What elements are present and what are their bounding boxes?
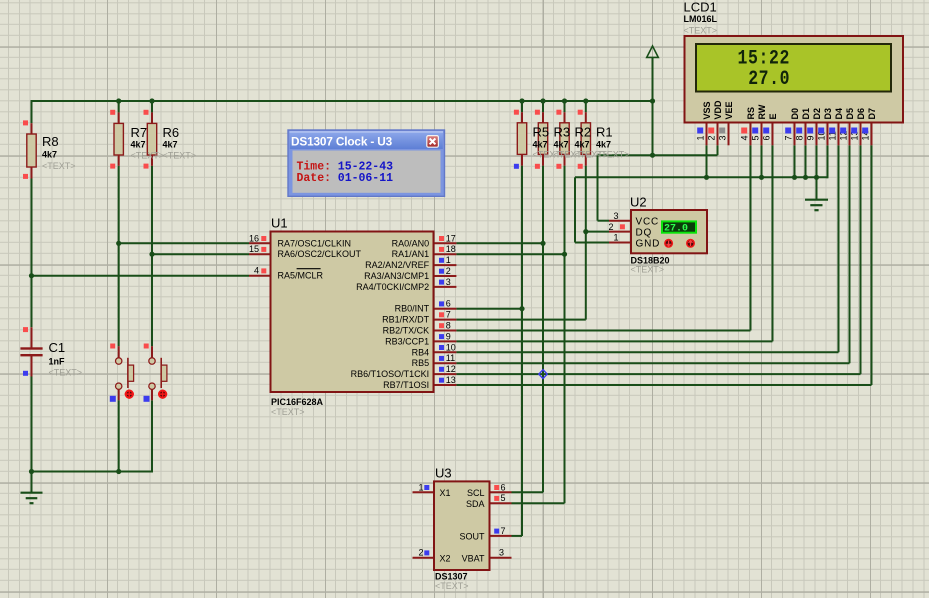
resistor R1 <box>581 123 590 155</box>
U1 right pin stubs <box>434 243 457 385</box>
svg-text:RA4/T0CKI/CMP2: RA4/T0CKI/CMP2 <box>356 282 429 292</box>
svg-text:U2: U2 <box>630 194 647 209</box>
svg-text:RB7/T1OSI: RB7/T1OSI <box>383 380 429 390</box>
svg-text:1: 1 <box>613 233 618 243</box>
svg-text:RA6/OSC2/CLKOUT: RA6/OSC2/CLKOUT <box>278 249 362 259</box>
R1 pin squares <box>578 110 583 169</box>
svg-text:R1: R1 <box>596 125 613 140</box>
svg-text:R5: R5 <box>533 125 550 140</box>
R8 pin stubs <box>31 123 33 178</box>
SW1 pin stubs <box>118 346 120 400</box>
svg-text:LCD1: LCD1 <box>684 0 717 15</box>
R1 pin stubs <box>585 112 587 165</box>
LCD pin squares <box>697 128 868 134</box>
svg-text:4: 4 <box>740 135 750 140</box>
wire LCD D2 down <box>816 145 818 177</box>
svg-text:D4: D4 <box>834 108 844 120</box>
node DQ/R1 junction <box>583 229 588 234</box>
node R6/OSC2 junction <box>149 252 154 257</box>
wire R8/MCLR vertical net <box>31 100 33 472</box>
svg-text:RB4: RB4 <box>412 347 430 357</box>
svg-text:RB0/INT: RB0/INT <box>395 304 430 314</box>
svg-text:U1: U1 <box>271 216 288 231</box>
svg-text:<TEXT>: <TEXT> <box>271 407 305 417</box>
C1 pin squares <box>23 327 28 376</box>
U2 pin numbers <box>608 211 618 243</box>
svg-text:4k7: 4k7 <box>533 140 548 150</box>
R3 pin squares <box>535 110 540 169</box>
wire LCD D7 to RB7 <box>456 145 871 385</box>
SW1 pin squares <box>110 344 116 402</box>
IC U1 PIC16F628A body <box>271 232 434 393</box>
svg-text:VEE: VEE <box>724 101 734 119</box>
R5 labels <box>533 125 567 160</box>
wire R7 / SW1 vertical <box>118 100 120 472</box>
svg-text:1: 1 <box>446 255 451 265</box>
svg-text:<TEXT>: <TEXT> <box>435 581 469 591</box>
SW2 pin stubs <box>151 346 153 400</box>
svg-text:VSS: VSS <box>702 101 712 119</box>
svg-text:VCC: VCC <box>636 217 660 228</box>
svg-text:RA2/AN2/VREF: RA2/AN2/VREF <box>365 260 430 270</box>
svg-text:SOUT: SOUT <box>459 532 485 542</box>
svg-text:4k7: 4k7 <box>131 140 146 150</box>
wire LCD D5 to RB5 <box>456 145 849 363</box>
svg-text:D2: D2 <box>812 108 822 120</box>
svg-text:4k7: 4k7 <box>554 140 569 150</box>
wire RB1 row to DQ net <box>456 319 585 321</box>
R6 pin squares <box>144 110 149 169</box>
svg-text:4k7: 4k7 <box>42 150 57 160</box>
U1 left pin stubs <box>249 243 271 275</box>
wire RA0 row to SCL net <box>456 242 543 244</box>
R1 labels <box>596 125 630 160</box>
svg-text:<TEXT>: <TEXT> <box>131 150 165 160</box>
resistor R6 <box>147 123 156 155</box>
svg-text:RA3/AN3/CMP1: RA3/AN3/CMP1 <box>364 271 429 281</box>
svg-text:C1: C1 <box>49 340 66 355</box>
U1 left pin numbers <box>249 233 259 275</box>
R2 pin stubs <box>564 112 566 165</box>
wire LCD RS to RB2 <box>456 145 750 330</box>
wire R6 / SW2 vertical <box>151 100 153 472</box>
svg-text:D5: D5 <box>845 108 855 120</box>
svg-text:D7: D7 <box>867 108 877 120</box>
U2 up button <box>686 239 695 248</box>
svg-text:X2: X2 <box>440 553 451 563</box>
U1 left pin names <box>278 238 362 280</box>
wire MCLR to U1 pin4 <box>32 275 250 277</box>
svg-text:4k7: 4k7 <box>163 140 178 150</box>
svg-text:R2: R2 <box>575 125 592 140</box>
R3 labels <box>554 125 588 160</box>
R7 pin squares <box>110 110 115 169</box>
U3 pin names <box>440 488 485 563</box>
node R7/OSC1 junction <box>116 241 121 246</box>
LCD screen line 2 text <box>748 68 790 91</box>
svg-text:9: 9 <box>806 135 816 140</box>
push button SW1 <box>116 358 134 399</box>
svg-text:RS: RS <box>746 107 756 120</box>
svg-text:18: 18 <box>446 244 456 254</box>
R8 pin squares <box>23 120 28 178</box>
svg-text:6: 6 <box>762 135 772 140</box>
U1 right pin squares <box>439 236 444 383</box>
svg-text:2: 2 <box>608 222 613 232</box>
svg-text:17: 17 <box>446 233 456 243</box>
U1 left pin squares <box>261 236 266 273</box>
node origin marker (blue diamond) <box>539 370 547 379</box>
svg-text:2: 2 <box>446 266 451 276</box>
svg-text:7: 7 <box>784 135 794 140</box>
svg-text:RB3/CCP1: RB3/CCP1 <box>385 336 429 346</box>
svg-text:27.0: 27.0 <box>664 224 688 235</box>
svg-text:9: 9 <box>446 331 451 341</box>
svg-text:R6: R6 <box>163 125 180 140</box>
ground (bottom left) <box>21 472 43 504</box>
svg-text:6: 6 <box>446 299 451 309</box>
wire R3/SCL vertical net <box>512 100 544 492</box>
wire R5/SOUT vertical net <box>512 100 523 536</box>
C1 labels <box>49 340 83 378</box>
node MCLR junction <box>29 273 34 278</box>
U3 pin stubs <box>413 492 512 557</box>
resistor R7 <box>114 123 123 155</box>
svg-text:RB6/T1OSO/T1CKI: RB6/T1OSO/T1CKI <box>351 369 430 379</box>
R2 pin squares <box>556 110 561 169</box>
resistor R8 <box>27 134 36 167</box>
wire RA1 row to SDA net <box>456 253 564 255</box>
svg-text:<TEXT>: <TEXT> <box>596 150 630 160</box>
R3 pin stubs <box>542 112 544 165</box>
svg-text:RB5: RB5 <box>412 358 430 368</box>
LCD pin names (rotated) <box>702 100 877 120</box>
svg-text:VBAT: VBAT <box>462 553 485 563</box>
svg-text:3: 3 <box>613 211 618 221</box>
junction dots on bottom rail <box>29 469 121 474</box>
wire OSC2 row to U1 pin15 <box>152 253 249 255</box>
svg-text:<TEXT>: <TEXT> <box>684 25 718 35</box>
resistor R2 <box>560 123 569 155</box>
svg-text:DS1307: DS1307 <box>435 572 468 582</box>
wire power feed vertical <box>652 58 654 156</box>
svg-text:GND: GND <box>636 238 661 249</box>
svg-text:27.0: 27.0 <box>748 68 790 91</box>
U1 right pin names <box>351 238 430 390</box>
svg-text:VDD: VDD <box>713 100 723 120</box>
svg-text:11: 11 <box>446 353 455 363</box>
svg-text:R8: R8 <box>42 134 59 149</box>
svg-text:8: 8 <box>446 321 451 331</box>
node +5V rail junction <box>650 153 655 158</box>
wire R1/DQ vertical net <box>585 100 587 320</box>
svg-text:10: 10 <box>446 342 456 352</box>
svg-text:1: 1 <box>418 482 423 492</box>
svg-text:3: 3 <box>718 135 728 140</box>
svg-text:SCL: SCL <box>467 488 485 498</box>
svg-text:16: 16 <box>249 233 259 243</box>
U2 DQ pin square <box>620 224 625 229</box>
svg-text:5: 5 <box>751 135 761 140</box>
wire R2/SDA vertical net <box>512 100 565 503</box>
popup Time row <box>297 161 394 174</box>
node SCL/RA0 junction <box>540 241 545 246</box>
wire DQ to U2 <box>585 231 609 233</box>
node SDA/RA1 junction <box>562 252 567 257</box>
R5 pin squares <box>514 110 519 169</box>
svg-text:RB1/RX/DT: RB1/RX/DT <box>382 315 430 325</box>
svg-text:DQ: DQ <box>636 227 653 238</box>
wire LCD D3 down <box>827 145 829 178</box>
wire LCD VSS down <box>706 145 708 177</box>
svg-text:15:22: 15:22 <box>738 47 790 70</box>
wire LCD D4 to RB4 <box>456 145 838 352</box>
svg-text:1nF: 1nF <box>49 356 66 366</box>
svg-text:13: 13 <box>446 375 456 385</box>
svg-text:R7: R7 <box>131 125 148 140</box>
wire +5V top bus <box>32 100 653 102</box>
svg-text:4: 4 <box>254 266 259 276</box>
svg-text:PIC16F628A: PIC16F628A <box>271 397 324 407</box>
wire ground rail under LCD <box>575 176 828 178</box>
svg-text:RW: RW <box>757 104 767 119</box>
DS1307 clock popup window <box>288 130 445 196</box>
svg-text:01-06-11: 01-06-11 <box>338 172 393 185</box>
wire +5V rail to VDD and U2 VCC <box>598 155 718 221</box>
ground (under LCD) <box>805 177 828 210</box>
svg-text:3: 3 <box>446 277 451 287</box>
U2 temperature display <box>662 221 696 234</box>
resistor R3 <box>538 123 547 155</box>
IC U2 DS18B20 body <box>631 210 707 253</box>
U2 pin stubs <box>609 221 631 243</box>
R6 labels <box>163 125 197 160</box>
svg-text:7: 7 <box>501 526 506 536</box>
U1 right pin numbers <box>446 233 456 385</box>
popup close button <box>427 136 439 148</box>
svg-text:3: 3 <box>499 548 504 558</box>
LCD screen line 1 text <box>738 47 790 70</box>
wire LCD D6 to RB6 <box>456 145 860 374</box>
svg-text:RA7/OSC1/CLKIN: RA7/OSC1/CLKIN <box>278 238 352 248</box>
svg-text:6: 6 <box>501 482 506 492</box>
svg-text:D3: D3 <box>823 108 833 120</box>
svg-text:RA5/MCLR: RA5/MCLR <box>278 271 324 281</box>
svg-text:7: 7 <box>446 310 451 320</box>
R5 pin stubs <box>521 112 523 165</box>
C1 pin stubs <box>31 327 33 376</box>
U2 pin names <box>636 217 661 250</box>
svg-text:D6: D6 <box>856 108 866 120</box>
svg-text:<TEXT>: <TEXT> <box>163 150 197 160</box>
svg-text:<TEXT>: <TEXT> <box>49 368 83 378</box>
wire bottom ground rail <box>32 471 154 473</box>
svg-text:8: 8 <box>795 135 805 140</box>
svg-text:<TEXT>: <TEXT> <box>631 265 665 275</box>
U2 down button <box>664 239 673 248</box>
svg-text:12: 12 <box>446 364 456 374</box>
wire OSC1 row to U1 pin16 <box>119 242 249 244</box>
push button SW2 <box>149 358 167 399</box>
svg-text:15: 15 <box>249 244 259 254</box>
svg-text:4k7: 4k7 <box>575 140 590 150</box>
svg-text:SDA: SDA <box>466 499 485 509</box>
svg-text:5: 5 <box>501 493 506 503</box>
svg-text:1: 1 <box>696 135 706 140</box>
R6 pin stubs <box>151 112 153 165</box>
capacitor C1 <box>20 347 42 356</box>
junction dots on +5V bus <box>116 98 655 103</box>
R2 labels <box>575 125 609 160</box>
svg-text:RB2/TX/CK: RB2/TX/CK <box>383 326 430 336</box>
wire RB0 row to SOUT net <box>456 308 522 310</box>
LCD pin stubs <box>707 123 872 146</box>
svg-text:2: 2 <box>418 548 423 558</box>
R8 labels <box>42 134 76 171</box>
svg-text:X1: X1 <box>440 488 451 498</box>
power +5V terminal arrow <box>647 46 659 57</box>
U3 pin numbers <box>418 482 505 557</box>
wire LCD D0 down <box>794 145 796 177</box>
svg-text:RA1/AN1: RA1/AN1 <box>392 249 430 259</box>
LCD1 LM016L body <box>685 36 904 123</box>
svg-text:D0: D0 <box>790 108 800 120</box>
R7 pin stubs <box>118 112 120 165</box>
svg-text:2: 2 <box>707 135 717 140</box>
svg-text:Date:: Date: <box>297 172 332 185</box>
resistor R5 <box>517 123 526 155</box>
IC U3 DS1307 body <box>434 481 490 570</box>
wire LCD VDD down <box>717 145 719 155</box>
svg-text:R3: R3 <box>554 125 571 140</box>
SW2 pin squares <box>144 344 150 402</box>
svg-text:LM016L: LM016L <box>684 14 718 24</box>
U3 pin squares <box>424 485 499 555</box>
wire U2 GND to ground rail <box>575 177 609 242</box>
svg-text:4k7: 4k7 <box>596 140 611 150</box>
junction dots on ground rail <box>704 175 819 180</box>
node SOUT/RB0 junction <box>519 306 524 311</box>
svg-text:RA0/AN0: RA0/AN0 <box>392 238 430 248</box>
svg-text:U3: U3 <box>435 466 452 481</box>
LCD screen <box>696 44 891 92</box>
wire LCD RW down <box>761 145 763 177</box>
wire LCD E to RB3 <box>456 145 772 341</box>
svg-text:DS1307 Clock - U3: DS1307 Clock - U3 <box>291 135 393 149</box>
LCD pin numbers (rotated) <box>696 130 871 140</box>
R7 labels <box>131 125 165 160</box>
svg-text:<TEXT>: <TEXT> <box>42 161 76 171</box>
wire LCD D1 down <box>805 145 807 177</box>
svg-text:D1: D1 <box>801 108 811 120</box>
popup Date row <box>297 172 394 185</box>
svg-text:E: E <box>768 113 778 119</box>
